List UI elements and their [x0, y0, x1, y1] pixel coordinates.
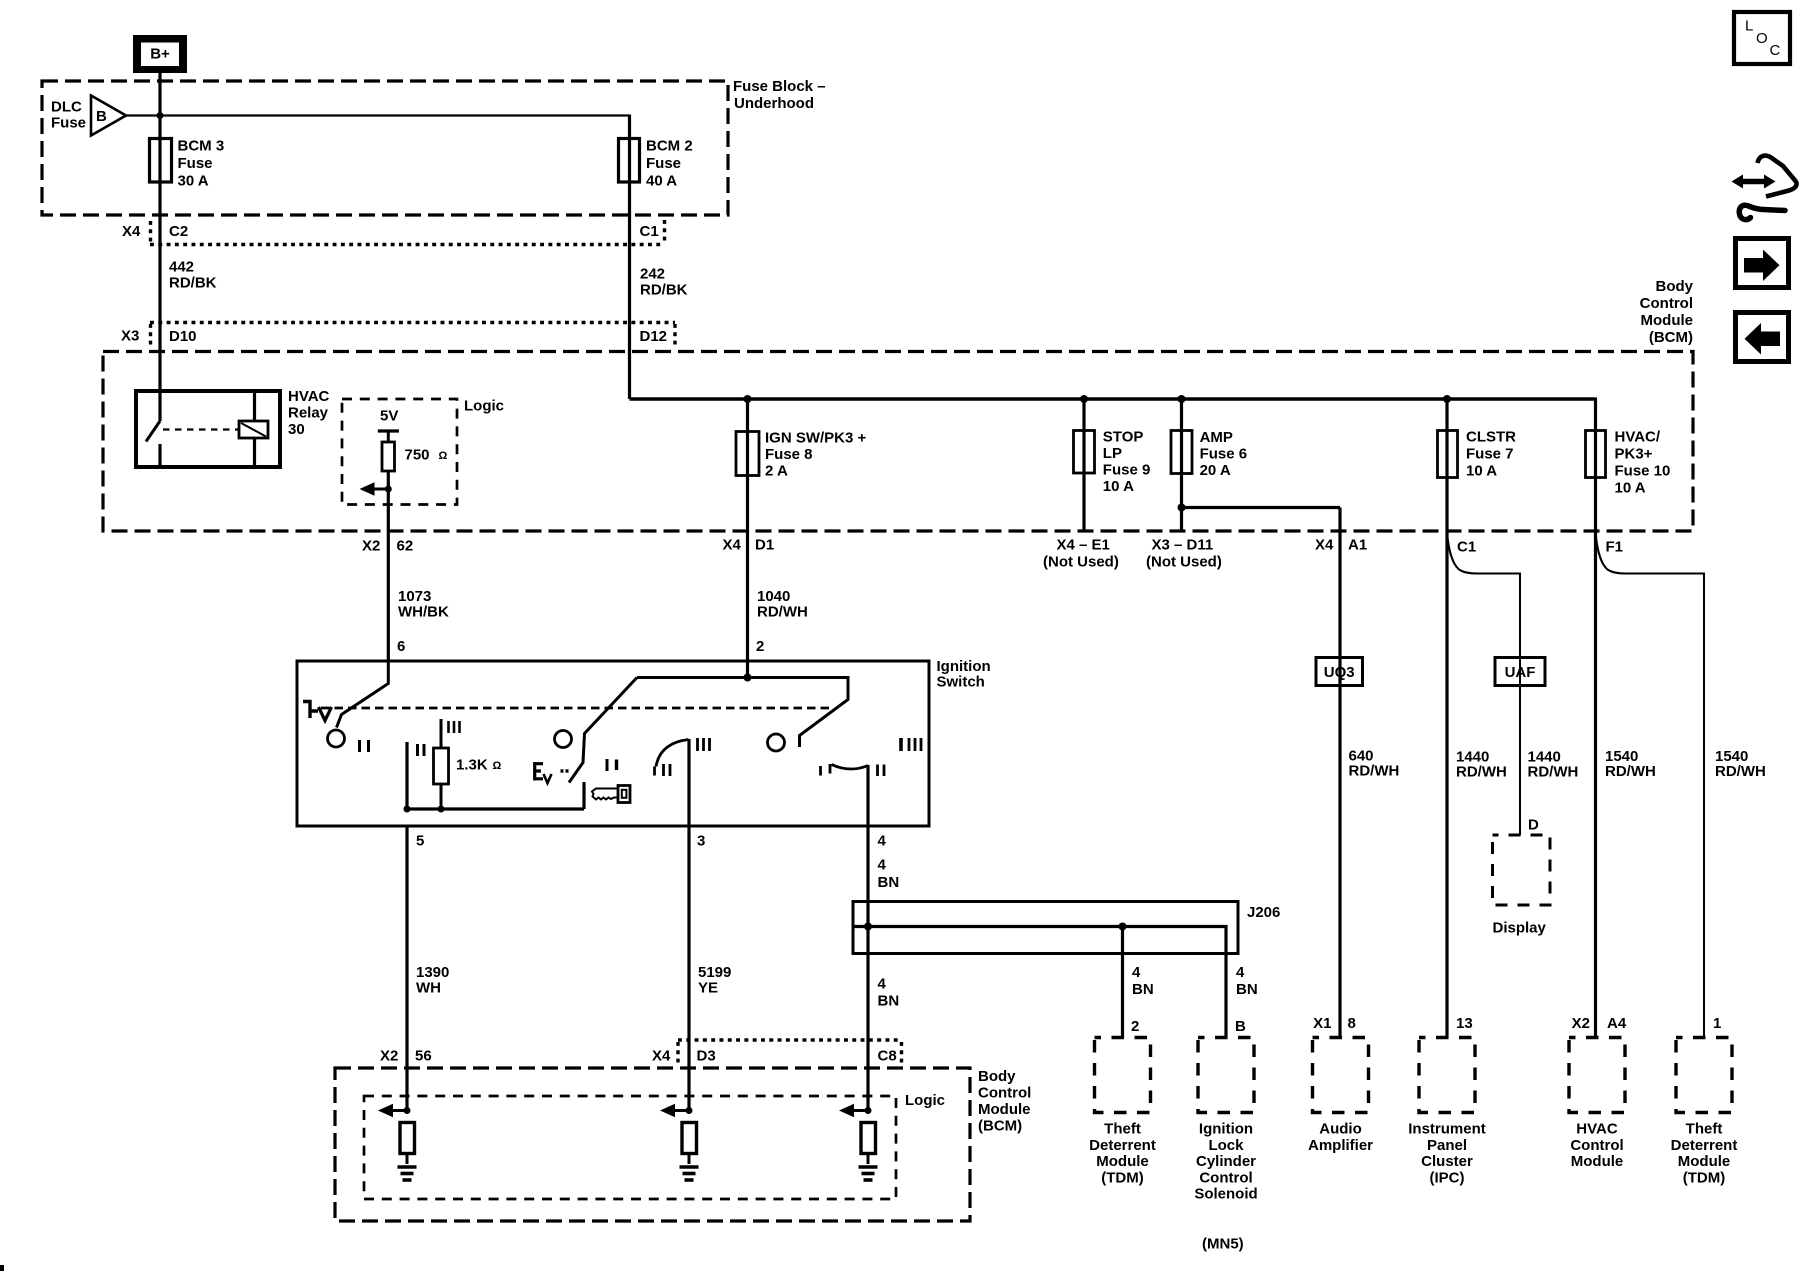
symbol position marker pole B: [535, 762, 569, 783]
note MN5: [1202, 1236, 1244, 1253]
svg-text:Switch: Switch: [937, 674, 985, 691]
svg-text:62: 62: [397, 538, 414, 555]
svg-text:Fuse 8: Fuse 8: [765, 446, 813, 463]
svg-text:Logic: Logic: [464, 398, 504, 415]
svg-text:Cylinder: Cylinder: [1196, 1153, 1256, 1170]
svg-text:UQ3: UQ3: [1324, 664, 1355, 681]
pin 6 ignition switch: [397, 638, 405, 655]
connector X4 D1: [723, 537, 775, 554]
node B+ battery terminal: [133, 35, 187, 73]
svg-text:4: 4: [1132, 964, 1141, 981]
key icon: [592, 786, 630, 803]
junction dot STOP fuse tap: [1080, 395, 1088, 403]
ground BCM C8: [859, 1167, 878, 1180]
svg-text:Cluster: Cluster: [1421, 1153, 1473, 1170]
module Ignition Lock Cylinder Control Solenoid box: [1194, 1038, 1257, 1203]
svg-text:30: 30: [288, 421, 305, 438]
svg-text:5199: 5199: [698, 964, 731, 981]
svg-text:O: O: [1756, 30, 1768, 47]
svg-text:Module: Module: [1678, 1153, 1731, 1170]
svg-text:LP: LP: [1103, 445, 1122, 462]
wire pole D down to pin 4: [866, 765, 869, 826]
logic box BCM bottom: [364, 1092, 945, 1199]
resistor pulldown 56: [400, 1123, 415, 1165]
svg-text:Underhood: Underhood: [734, 95, 814, 112]
svg-text:Module: Module: [1641, 312, 1694, 329]
svg-text:Relay: Relay: [288, 405, 329, 422]
svg-text:(BCM): (BCM): [978, 1118, 1022, 1135]
junction dot AMP branch: [1178, 504, 1186, 512]
svg-text:Audio: Audio: [1319, 1121, 1362, 1138]
DLC Fuse B triangle: [51, 96, 126, 136]
wire DLC fuse to BCM 2 fuse horizontal: [126, 114, 630, 116]
svg-text:C8: C8: [878, 1048, 897, 1065]
junction dot input C8: [865, 1107, 872, 1114]
pin 2 TDM label: [1131, 1018, 1139, 1035]
svg-text:RD/BK: RD/BK: [640, 282, 688, 299]
wire pole A contact to common rail: [405, 742, 408, 809]
svg-text:HVAC: HVAC: [1576, 1121, 1618, 1138]
svg-text:YE: YE: [698, 980, 718, 997]
svg-text:C1: C1: [640, 223, 659, 240]
resistor 750 ohm: [382, 442, 448, 471]
svg-text:Amplifier: Amplifier: [1308, 1137, 1373, 1154]
wire label 442 RD/BK: [169, 259, 217, 292]
pin 3 label: [697, 833, 705, 850]
svg-text:5V: 5V: [380, 408, 398, 425]
svg-text:WH/BK: WH/BK: [398, 604, 449, 621]
icon jump double arrow: [1732, 175, 1776, 189]
wire pole C top rail: [637, 676, 848, 679]
svg-text:X2: X2: [380, 1048, 398, 1065]
svg-text:BN: BN: [1236, 981, 1258, 998]
svg-text:D10: D10: [169, 328, 197, 345]
connector F1: [1606, 539, 1624, 556]
svg-text:Theft: Theft: [1686, 1121, 1723, 1138]
fuse block underhood box: [42, 78, 826, 215]
svg-text:D3: D3: [697, 1048, 716, 1065]
svg-text:Logic: Logic: [905, 1092, 945, 1109]
wire B+ feed down to BCM 3 fuse and HVAC relay: [158, 66, 161, 421]
svg-text:Display: Display: [1493, 920, 1547, 937]
ground BCM 56: [398, 1167, 417, 1180]
svg-text:X4 – E1: X4 – E1: [1057, 537, 1110, 554]
module Theft Deterrent Module TDM right box: [1671, 1038, 1738, 1187]
svg-text:IGN SW/PK3 +: IGN SW/PK3 +: [765, 430, 867, 447]
icon arrow left box: [1736, 313, 1789, 362]
connector X4 A1: [1315, 537, 1367, 554]
pin X2 A4 HVAC label: [1572, 1015, 1627, 1032]
svg-text:2: 2: [756, 638, 764, 655]
wire BCM 2 fuse drop: [628, 115, 631, 400]
wire label 1040 RD/WH: [757, 588, 808, 621]
wire label 1440 RD/WH right: [1528, 749, 1579, 781]
contact circle pole C: [768, 734, 785, 751]
svg-text:WH: WH: [416, 980, 441, 997]
junction dot rail left: [404, 806, 411, 813]
svg-text:RD/WH: RD/WH: [1528, 764, 1579, 781]
connector X4 D3: [652, 1048, 716, 1065]
svg-text:Module: Module: [978, 1101, 1031, 1118]
position marks III pole C: [698, 738, 710, 751]
connector row X4 C2 / C1: [122, 220, 665, 245]
svg-text:BCM 2: BCM 2: [646, 138, 693, 155]
resistor pulldown D3: [682, 1123, 697, 1165]
svg-text:10 A: 10 A: [1466, 463, 1497, 480]
connector X2 62: [362, 538, 413, 555]
svg-text:RD/WH: RD/WH: [757, 604, 808, 621]
svg-text:Body: Body: [978, 1068, 1016, 1085]
wire label 4 BN TDM: [1132, 964, 1154, 998]
svg-text:Ignition: Ignition: [937, 658, 991, 675]
svg-text:BN: BN: [1132, 981, 1154, 998]
svg-text:Panel: Panel: [1427, 1137, 1467, 1154]
arrow logic signal D3: [660, 1104, 689, 1118]
svg-text:BN: BN: [878, 993, 900, 1010]
pin 2 ignition switch: [756, 638, 764, 655]
svg-text:Lock: Lock: [1208, 1137, 1244, 1154]
svg-text:13: 13: [1456, 1015, 1473, 1032]
connector X2 56: [380, 1048, 432, 1065]
svg-text:Control: Control: [1570, 1137, 1623, 1154]
contact circle pole A: [328, 730, 345, 747]
pin 5 label: [416, 833, 424, 850]
wire C1 branch to UAF display: [1447, 532, 1520, 835]
svg-text:2 A: 2 A: [765, 463, 788, 480]
position marks II pole D: [878, 765, 885, 777]
module Audio Amplifier box: [1308, 1038, 1373, 1154]
icon jump swoosh: [1739, 156, 1796, 220]
svg-text:AMP: AMP: [1200, 429, 1233, 446]
svg-text:1.3K: 1.3K: [456, 757, 488, 774]
arc wiper pole D: [830, 764, 868, 774]
icon LOC reference box: [1734, 12, 1790, 64]
junction dot at B+ feed: [157, 112, 164, 119]
svg-text:242: 242: [640, 266, 665, 283]
svg-text:20 A: 20 A: [1200, 462, 1231, 479]
svg-text:6: 6: [397, 638, 405, 655]
wire label 4 BN upper: [878, 857, 900, 892]
junction dot rail resistor: [438, 806, 445, 813]
position marks I I pole A: [360, 740, 369, 752]
junction dot CLSTR fuse tap: [1443, 395, 1451, 403]
svg-text:(Not Used): (Not Used): [1043, 554, 1119, 571]
wire F1 branch to TDM: [1596, 532, 1705, 1038]
svg-text:4: 4: [1236, 964, 1245, 981]
wire HVAC/PK3 fuse drop to HVAC control module: [1594, 398, 1597, 1038]
svg-text:C1: C1: [1457, 539, 1476, 556]
svg-text:40 A: 40 A: [646, 173, 677, 190]
pin 1 TDM label: [1713, 1015, 1721, 1032]
svg-text:1040: 1040: [757, 588, 790, 605]
svg-text:Theft: Theft: [1104, 1121, 1141, 1138]
svg-text:3: 3: [697, 833, 705, 850]
svg-text:Control: Control: [1640, 295, 1693, 312]
svg-text:Fuse 7: Fuse 7: [1466, 446, 1514, 463]
wire pole C contact down to pin 3: [687, 739, 690, 826]
svg-text:RD/BK: RD/BK: [169, 275, 217, 292]
svg-text:X4: X4: [652, 1048, 671, 1065]
arrow logic signal C8: [839, 1104, 868, 1118]
svg-text:PK3+: PK3+: [1615, 446, 1653, 463]
svg-text:Control: Control: [1199, 1169, 1252, 1186]
svg-text:442: 442: [169, 259, 194, 276]
relay HVAC Relay 30: [136, 388, 330, 467]
svg-text:30 A: 30 A: [178, 173, 209, 190]
pin B solenoid label: [1235, 1018, 1246, 1035]
svg-text:Ω: Ω: [439, 450, 448, 462]
connector X3-D11 not used: [1146, 537, 1222, 571]
switch ignition switch box: [297, 658, 991, 826]
connector row X4 D3 C8 dotted: [678, 1040, 902, 1066]
junction dot AMP fuse tap: [1178, 395, 1186, 403]
pin 4 label: [878, 833, 887, 850]
svg-text:(TDM): (TDM): [1101, 1169, 1143, 1186]
wire label 4 BN solenoid: [1236, 964, 1258, 998]
module Instrument Panel Cluster box: [1408, 1038, 1486, 1187]
svg-text:Body: Body: [1656, 278, 1694, 295]
wire pin 5 to BCM X2-56: [405, 826, 408, 1111]
svg-text:56: 56: [415, 1048, 432, 1065]
svg-text:Instrument: Instrument: [1408, 1121, 1486, 1138]
arc wiper pole C: [655, 740, 689, 776]
module BCM bottom dashed box: [335, 1068, 970, 1221]
junction dot logic output: [385, 486, 392, 493]
fuse BCM 2 40A: [619, 138, 693, 190]
wire pin 3 to BCM X4-D3: [687, 826, 690, 1111]
ground BCM D3: [680, 1167, 699, 1180]
module BCM top dashed box: [103, 352, 1693, 532]
module Display dashed box: [1493, 835, 1551, 937]
wire AMP fuse drop: [1180, 399, 1183, 531]
svg-text:Deterrent: Deterrent: [1671, 1137, 1738, 1154]
module HVAC Control Module box: [1569, 1038, 1625, 1171]
connector C8: [878, 1048, 897, 1065]
svg-text:HVAC: HVAC: [288, 388, 330, 405]
svg-text:J206: J206: [1247, 904, 1280, 921]
wire AMP branch to X4-A1: [1182, 508, 1341, 1038]
svg-text:L: L: [1745, 18, 1753, 35]
wire label 640 RD/WH: [1349, 748, 1400, 780]
svg-text:RD/WH: RD/WH: [1605, 763, 1656, 780]
junction dot J206 at pin4 wire: [864, 923, 872, 931]
svg-text:STOP: STOP: [1103, 429, 1144, 446]
resistor 1.3K ohm: [434, 719, 502, 809]
wire label 1440 RD/WH left: [1456, 749, 1507, 781]
label Body Control Module (BCM) bottom: [978, 1068, 1031, 1135]
junction dot pin 2: [744, 674, 752, 682]
wire 750 ohm to X2-62 output: [387, 471, 390, 661]
svg-text:RD/WH: RD/WH: [1715, 763, 1766, 780]
connector C1: [1457, 539, 1476, 556]
position mark I pole D: [819, 766, 822, 776]
svg-text:X4: X4: [122, 223, 141, 240]
fuse IGN SW/PK3+ Fuse 8 2A: [736, 430, 867, 480]
wire CLSTR fuse drop to IPC: [1445, 399, 1448, 1038]
svg-text:Fuse: Fuse: [51, 115, 86, 132]
wire label 4 BN lower: [878, 976, 900, 1010]
junction dot J206 at TDM drop: [1119, 923, 1127, 931]
svg-text:X4: X4: [723, 537, 742, 554]
switch pole C armature: [800, 676, 849, 747]
svg-text:(Not Used): (Not Used): [1146, 554, 1222, 571]
svg-text:(TDM): (TDM): [1683, 1169, 1725, 1186]
svg-text:5: 5: [416, 833, 424, 850]
svg-text:Module: Module: [1096, 1153, 1149, 1170]
svg-text:X3 – D11: X3 – D11: [1152, 537, 1214, 554]
wire common rail to key contact: [407, 782, 584, 809]
option code UAF box: [1495, 658, 1545, 686]
position marks II pole C: [664, 764, 671, 776]
svg-text:X2: X2: [1572, 1015, 1590, 1032]
svg-text:(IPC): (IPC): [1430, 1169, 1465, 1186]
wire pin 4 to BCM C8 through J206: [866, 826, 869, 1111]
wire label 1540 RD/WH right: [1715, 748, 1766, 780]
arrow logic signal left: [360, 482, 389, 496]
svg-text:Module: Module: [1571, 1153, 1624, 1170]
pin D display: [1528, 817, 1539, 834]
svg-text:(MN5): (MN5): [1202, 1236, 1244, 1253]
svg-text:D1: D1: [755, 537, 774, 554]
svg-text:4: 4: [878, 833, 887, 850]
svg-text:8: 8: [1348, 1015, 1356, 1032]
svg-text:750: 750: [405, 447, 430, 464]
svg-text:F1: F1: [1606, 539, 1624, 556]
connector X4-E1 not used: [1043, 537, 1119, 571]
node 5V supply: [378, 408, 399, 443]
position marks III resistor: [449, 721, 460, 733]
svg-text:Ω: Ω: [493, 760, 502, 772]
wire IGN SW fuse drop to ignition switch pin 2: [746, 399, 749, 678]
svg-text:2: 2: [1131, 1018, 1139, 1035]
svg-text:Fuse: Fuse: [178, 155, 213, 172]
svg-text:X1: X1: [1313, 1015, 1331, 1032]
svg-text:X2: X2: [362, 538, 380, 555]
svg-text:1073: 1073: [398, 588, 431, 605]
svg-text:Solenoid: Solenoid: [1194, 1186, 1257, 1203]
icon arrow right box: [1736, 239, 1789, 288]
symbol position marker pole A: [303, 702, 332, 721]
wire edge artifact bottom left: [0, 1265, 4, 1271]
junction dot input D3: [686, 1107, 693, 1114]
wire J206 splice bus: [853, 927, 1226, 1038]
wire label 242 RD/BK: [640, 266, 688, 299]
pin X1 8 audio amp label: [1313, 1015, 1356, 1032]
svg-text:Fuse Block –: Fuse Block –: [733, 78, 826, 95]
svg-text:UAF: UAF: [1505, 664, 1536, 681]
svg-text:1: 1: [1713, 1015, 1721, 1032]
arrow logic signal 56: [378, 1104, 407, 1118]
svg-text:A1: A1: [1348, 537, 1367, 554]
wire label 1073 WH/BK: [398, 588, 449, 621]
svg-text:10 A: 10 A: [1103, 478, 1134, 495]
svg-text:BCM 3: BCM 3: [178, 138, 225, 155]
svg-text:B: B: [96, 108, 107, 125]
wire label 5199 YE: [698, 964, 731, 997]
svg-text:1390: 1390: [416, 964, 449, 981]
wire J206 to TDM pin 2: [1121, 927, 1124, 1038]
svg-text:A4: A4: [1607, 1015, 1627, 1032]
svg-text:CLSTR: CLSTR: [1466, 429, 1516, 446]
svg-text:B: B: [1235, 1018, 1246, 1035]
splice pack J206 box: [853, 902, 1280, 954]
svg-text:C2: C2: [169, 223, 188, 240]
position marks I III pole D right: [901, 738, 921, 751]
fuse AMP Fuse 6 20A: [1171, 429, 1247, 479]
junction dot IGN fuse tap: [744, 395, 752, 403]
svg-text:Deterrent: Deterrent: [1089, 1137, 1156, 1154]
svg-text:Fuse 9: Fuse 9: [1103, 462, 1151, 479]
svg-text:4: 4: [878, 857, 887, 874]
switch pole A blade from pin 6: [337, 660, 389, 728]
svg-text:RD/WH: RD/WH: [1349, 763, 1400, 780]
wire bus BCM2 to fuses: [630, 397, 1596, 401]
svg-text:Fuse 6: Fuse 6: [1200, 446, 1248, 463]
svg-text:Fuse: Fuse: [646, 155, 681, 172]
position marks II pole A contact: [418, 744, 425, 756]
svg-text:B+: B+: [150, 46, 170, 63]
fuse BCM 3 30A: [150, 138, 225, 190]
fuse HVAC/PK3+ Fuse 10 10A: [1586, 429, 1671, 497]
svg-text:D12: D12: [640, 328, 668, 345]
svg-text:10 A: 10 A: [1615, 480, 1646, 497]
fuse STOP LP Fuse 9 10A: [1074, 429, 1151, 496]
resistor pulldown C8: [861, 1123, 876, 1165]
svg-text:X3: X3: [121, 328, 139, 345]
svg-text:X4: X4: [1315, 537, 1334, 554]
linkage dashed mechanical link: [321, 707, 834, 710]
svg-text:RD/WH: RD/WH: [1456, 764, 1507, 781]
svg-text:HVAC/: HVAC/: [1615, 429, 1661, 446]
svg-text:Control: Control: [978, 1085, 1031, 1102]
svg-text:(BCM): (BCM): [1649, 329, 1693, 346]
wire label 1540 RD/WH left: [1605, 748, 1656, 780]
contact circle pole B key: [555, 731, 572, 748]
option code UQ3 box: [1316, 658, 1363, 686]
junction dot input 56: [404, 1107, 411, 1114]
svg-text:D: D: [1528, 817, 1539, 834]
logic box BCM top: [342, 398, 504, 505]
module Theft Deterrent Module TDM box: [1089, 1038, 1156, 1187]
svg-text:C: C: [1770, 42, 1781, 59]
wire STOP LP fuse drop: [1082, 399, 1085, 531]
switch pole B key armature: [569, 678, 637, 783]
pin 13 IPC label: [1456, 1015, 1473, 1032]
label Body Control Module (BCM) top right: [1640, 278, 1694, 346]
svg-text:BN: BN: [878, 874, 900, 891]
wire label 1390 WH: [416, 964, 449, 997]
fuse CLSTR Fuse 7 10A: [1438, 429, 1517, 480]
svg-text:4: 4: [878, 976, 887, 993]
connector row X3 D10 / D12: [121, 323, 675, 348]
svg-text:Ignition: Ignition: [1199, 1121, 1253, 1138]
svg-text:DLC: DLC: [51, 99, 82, 116]
svg-text:Fuse 10: Fuse 10: [1615, 463, 1671, 480]
position marks I I pole B: [607, 759, 617, 771]
